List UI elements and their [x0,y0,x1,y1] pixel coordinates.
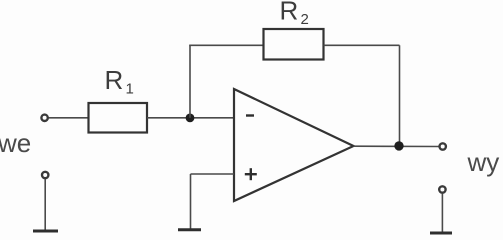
wire input terminal to R1 [49,117,89,119]
input terminal (we) [41,115,47,121]
wire down to ground from + input [190,174,192,229]
right ground terminal circle [439,186,445,192]
wire node A up to feedback [189,45,191,118]
output terminal (wy) [440,143,446,149]
node B junction dot (output) [394,141,403,150]
wire op-amp output to terminal [354,145,439,147]
svg-text:R: R [280,0,299,25]
ground (right) [430,232,452,235]
plus sign (non-inverting input) [245,173,257,175]
right ground stem wire [441,194,443,233]
resistor R2 [264,29,324,60]
wire feedback left to R2 [189,44,263,46]
wire R1 to op-amp inverting input [147,117,234,119]
ground (op-amp + input) [178,228,201,231]
ground (left) [33,230,58,233]
node A junction dot (inverting input) [186,114,195,123]
svg-text:wy: wy [467,147,500,177]
op-amp U1 [234,89,354,201]
left ground terminal circle [42,172,48,178]
svg-text:1: 1 [126,81,134,98]
resistor R1 [89,103,148,133]
wire feedback down to output node [399,45,401,146]
minus sign (inverting input) [246,114,254,116]
wire non-inverting input [191,173,235,175]
svg-text:2: 2 [301,11,309,28]
svg-text:we: we [0,128,31,158]
left ground stem wire [44,179,46,230]
svg-text:R: R [105,65,124,95]
wire R2 to output node [324,44,400,46]
